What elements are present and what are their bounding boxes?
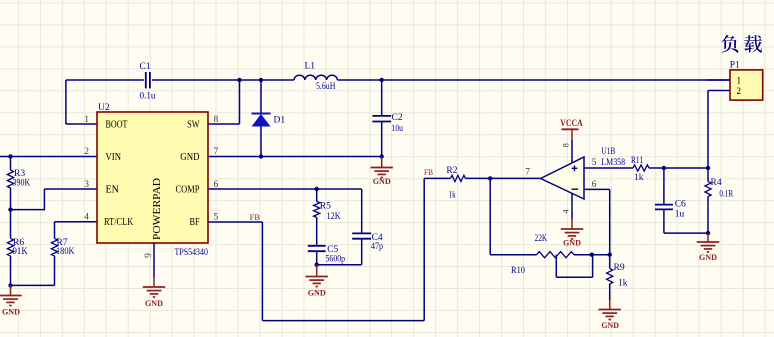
wire C1 to SW node (152, 79, 240, 81)
svg-text:FB: FB (424, 167, 433, 177)
wire R3 top lead (10, 157, 12, 171)
ground under R9 (599, 300, 621, 320)
U2 pin 9 number (144, 253, 154, 258)
junction op-amp output node (488, 176, 492, 180)
svg-text:EN: EN (106, 185, 120, 196)
ground lower left (0, 285, 22, 305)
svg-text:U2: U2 (98, 103, 110, 113)
svg-text:6: 6 (214, 180, 219, 190)
R6 label (13, 238, 24, 248)
svg-text:47p: 47p (371, 242, 383, 252)
GND label under C5 (308, 288, 326, 298)
U2 pin 5 number (214, 213, 219, 223)
wire D1 anode lead (260, 127, 262, 157)
wire FB net from U2 pin 5 (208, 178, 451, 320)
R2 value 1k (449, 190, 456, 200)
wire R9 bottom lead (609, 284, 611, 300)
junction output node at C2 (380, 78, 384, 82)
L1 value 5.6uH (316, 82, 336, 92)
wire VIN net from left edge to U2 pin 2 (0, 156, 97, 158)
U2 pin name RT/CLK (104, 217, 134, 228)
C1 label (140, 62, 151, 72)
wire R11 to C6 node (649, 167, 708, 169)
svg-text:9: 9 (144, 253, 154, 258)
wire bottom GND link (11, 284, 55, 286)
capacitor C5 (308, 246, 326, 251)
U2 pin name POWERPAD (152, 178, 163, 240)
U2 pin 1 number (84, 115, 89, 125)
svg-text:6: 6 (592, 180, 597, 190)
ground under U2 pin 9 (143, 277, 165, 297)
svg-text:8: 8 (560, 143, 570, 147)
svg-text:GND: GND (308, 288, 326, 298)
U2 pin 8 number (214, 115, 219, 125)
R5 label (320, 202, 331, 212)
wire R6 bottom lead (10, 256, 12, 285)
ground under R4 (697, 233, 719, 252)
R7 label (57, 238, 68, 248)
svg-text:1: 1 (737, 75, 742, 85)
wire R5 top lead (316, 189, 318, 201)
svg-text:BOOT: BOOT (106, 120, 128, 131)
resistor R3 (7, 170, 13, 188)
svg-text:FB: FB (250, 212, 261, 222)
svg-text:C2: C2 (392, 113, 403, 123)
ground under C2 (371, 157, 393, 178)
svg-text:SW: SW (187, 120, 200, 131)
U2 pin name BF (190, 217, 200, 228)
svg-text:VIN: VIN (106, 152, 122, 163)
U2 pin 7 number (214, 147, 219, 157)
svg-text:0.1R: 0.1R (719, 190, 733, 200)
ground under op-amp (561, 219, 583, 239)
capacitor C4 (352, 233, 371, 238)
wire R10 to inverting node (574, 254, 610, 256)
inductor L1 (294, 75, 337, 80)
U2 pin name SW (187, 120, 200, 131)
svg-text:3: 3 (84, 180, 89, 190)
svg-text:C6: C6 (675, 200, 686, 210)
svg-text:5: 5 (592, 158, 597, 168)
U2 designator (98, 103, 110, 113)
C6 label (675, 200, 686, 210)
svg-text:GND: GND (563, 238, 581, 248)
R6 value 91K (13, 247, 28, 257)
P1 designator (730, 61, 740, 71)
svg-text:5600p: 5600p (326, 255, 346, 265)
svg-text:R10: R10 (511, 266, 525, 276)
op-amp U1B body (541, 157, 584, 199)
junction C5/C4 bottom (315, 263, 319, 267)
U2 pin 6 number (214, 180, 219, 190)
R5 value 12K (327, 212, 341, 222)
R9 label (614, 263, 625, 273)
svg-text:BF: BF (190, 217, 200, 228)
svg-text:L1: L1 (305, 61, 316, 71)
wire R2 to op-amp output (465, 177, 540, 179)
svg-text:RT/CLK: RT/CLK (104, 217, 134, 228)
load title 负载 (721, 35, 762, 53)
svg-text:GND: GND (699, 252, 717, 262)
wire P1 pin 2 column (708, 91, 730, 169)
svg-text:VCCA: VCCA (560, 118, 583, 128)
wire R10 tap loop (556, 255, 592, 278)
resistor R10 22K (537, 252, 574, 258)
svg-text:4: 4 (84, 213, 89, 223)
IC U2 TPS54340 body (97, 112, 208, 243)
GND label under R4 (699, 252, 717, 262)
svg-text:1k: 1k (634, 173, 644, 183)
svg-text:R9: R9 (614, 263, 625, 273)
U2 pin name COMP (176, 185, 200, 196)
svg-text:C5: C5 (327, 245, 338, 255)
svg-text:1: 1 (84, 115, 89, 125)
GND label under U2 pin 9 (145, 298, 163, 308)
U1B part number LM358 (601, 158, 625, 168)
junction VIN/R3 (8, 154, 12, 158)
C2 value 10u (392, 124, 404, 134)
wire C6 bottom lead (664, 209, 708, 233)
svg-text:GND: GND (180, 152, 199, 163)
svg-text:GND: GND (145, 298, 163, 308)
wire RT/CLK to R7 (55, 222, 98, 239)
net label FB at U2 pin 5 (250, 212, 261, 222)
wire R4 top lead (707, 168, 709, 181)
svg-text:GND: GND (601, 320, 619, 330)
svg-text:5.6uH: 5.6uH (316, 82, 336, 92)
power port VCCA bar (562, 128, 579, 130)
C1 value 0.1u (140, 92, 156, 102)
op-amp pin 8 number (560, 143, 570, 147)
GND label under R9 (601, 320, 619, 330)
wire BOOT to C1 (66, 80, 144, 124)
svg-text:4: 4 (560, 209, 570, 214)
svg-text:7: 7 (214, 147, 219, 157)
op-amp pin 6 number (592, 180, 597, 190)
wire output net to P1 pin 1 (382, 79, 730, 81)
svg-text:5: 5 (214, 213, 219, 223)
net label FB at R2 (424, 167, 433, 177)
wire D1 cathode lead (260, 80, 262, 114)
P1 pin 2 number (737, 86, 742, 96)
svg-text:TPS54340: TPS54340 (175, 248, 209, 258)
svg-text:12K: 12K (327, 212, 341, 222)
capacitor C1 (146, 72, 150, 88)
svg-text:P1: P1 (730, 61, 740, 71)
junction inverting node (608, 253, 612, 257)
VCCA label (560, 118, 583, 128)
wire SW pin riser (208, 80, 240, 124)
svg-text:POWERPAD: POWERPAD (152, 178, 163, 240)
wire C2 top lead (381, 80, 383, 116)
svg-text:LM358: LM358 (601, 158, 625, 168)
svg-text:R11: R11 (631, 156, 643, 166)
svg-text:0.1u: 0.1u (140, 92, 156, 102)
R3 value 390K (13, 178, 31, 188)
U2 pin name EN (106, 185, 120, 196)
R4 value 0.1R (719, 190, 733, 200)
op-amp pin 5 number (592, 158, 597, 168)
P1 pin 1 lead (707, 79, 731, 81)
svg-text:1k: 1k (449, 190, 456, 200)
wire GND rail U2 pin 7 (208, 156, 382, 158)
ground under C5 (306, 265, 328, 287)
svg-text:GND: GND (373, 176, 391, 186)
wire feedback column (490, 178, 536, 254)
junction COMP/R5 (315, 187, 319, 191)
svg-text:91K: 91K (13, 247, 28, 257)
junction SW node (237, 78, 241, 82)
junction D1/GND rail (259, 154, 263, 158)
P1 pin 1 number (737, 75, 742, 85)
svg-text:2: 2 (737, 86, 742, 96)
junction D1 top (259, 78, 263, 82)
resistor R4 (705, 181, 711, 196)
U2 pin name BOOT (106, 120, 128, 131)
svg-text:1u: 1u (675, 210, 685, 220)
wire R4 bottom lead (707, 197, 709, 234)
U2 pin name VIN (106, 152, 122, 163)
svg-text:8: 8 (214, 115, 219, 125)
L1 label (305, 61, 316, 71)
C4 value 47p (371, 242, 383, 252)
C2 label (392, 113, 403, 123)
R11 value 1k (634, 173, 644, 183)
op-amp minus mark (572, 188, 579, 190)
svg-text:22K: 22K (535, 234, 548, 244)
U2 pin 2 number (84, 147, 89, 157)
U1B designator (601, 147, 615, 157)
resistor R7 (51, 238, 57, 256)
wire op-amp pin 6 to node (584, 189, 610, 254)
svg-text:R5: R5 (320, 202, 331, 212)
C5 value 5600p (326, 255, 346, 265)
R9 value 1k (618, 279, 628, 289)
R7 value 180K (56, 247, 75, 257)
svg-text:390K: 390K (13, 178, 31, 188)
svg-text:U1B: U1B (601, 147, 615, 157)
resistor R11 (633, 165, 649, 171)
junction R3/R6/EN node (8, 207, 12, 211)
wire C2 bottom lead (381, 122, 383, 157)
diode D1 (252, 114, 271, 127)
resistor R9 (607, 268, 613, 284)
U2 pin 9 lead (153, 243, 155, 277)
op-amp pin 7 number (525, 168, 530, 178)
svg-text:1k: 1k (618, 279, 628, 289)
wire EN net to U2 pin 3 (11, 189, 98, 210)
capacitor C2 (372, 116, 391, 122)
capacitor C6 (655, 205, 673, 210)
wire C6 top lead (663, 168, 665, 205)
wire C4 bottom lead (317, 239, 362, 265)
U2 pin 3 number (84, 180, 89, 190)
op-amp plus mark (572, 165, 578, 171)
U2 pin 4 number (84, 213, 89, 223)
svg-text:10u: 10u (392, 124, 404, 134)
D1 label (274, 116, 286, 126)
wire SW node to L1 (240, 79, 295, 81)
resistor R6 (7, 238, 13, 256)
svg-text:R2: R2 (446, 166, 457, 176)
C5 label (327, 245, 338, 255)
svg-text:GND: GND (2, 307, 20, 317)
op-amp pin 4 number (560, 209, 570, 214)
junction R4/C6 bottom (706, 231, 710, 235)
svg-text:COMP: COMP (176, 185, 200, 196)
svg-text:D1: D1 (274, 116, 286, 126)
R4 label (711, 178, 722, 188)
wire C5 bottom lead (316, 251, 318, 265)
R11 label (631, 156, 643, 166)
C4 label (372, 233, 383, 243)
wire op-amp pin 5 to R11 (584, 167, 633, 169)
GND label lower left (2, 307, 20, 317)
GND label under op-amp (563, 238, 581, 248)
C6 value 1u (675, 210, 685, 220)
wire R3 to R6 (10, 188, 12, 238)
wire R5 to C5 (316, 217, 318, 245)
U2 part number TPS54340 (175, 248, 209, 258)
junction R6/GND (8, 283, 12, 287)
svg-text:180K: 180K (56, 247, 75, 257)
R3 label (14, 169, 25, 179)
GND label under C2 (373, 176, 391, 186)
svg-text:2: 2 (84, 147, 89, 157)
wire COMP net U2 pin 6 (208, 189, 362, 233)
junction C2/GND rail (380, 154, 384, 158)
svg-text:R4: R4 (711, 178, 722, 188)
junction R11/C6 (662, 166, 666, 170)
wire R9 top lead (609, 255, 611, 269)
R2 label (446, 166, 457, 176)
R10 label (511, 266, 525, 276)
resistor R5 (314, 201, 320, 217)
op-amp pin 4 lead (571, 193, 573, 219)
U2 pin name GND (180, 152, 199, 163)
wire L1 to C2 node (337, 79, 381, 81)
junction R4 top node (706, 166, 710, 170)
resistor R2 (451, 175, 466, 181)
svg-text:C1: C1 (140, 62, 151, 72)
junction R10 right (590, 253, 594, 257)
op-amp pin 8 lead (571, 129, 573, 163)
wire R7 bottom lead (54, 256, 56, 285)
R10 value 22K (535, 234, 548, 244)
svg-text:7: 7 (525, 168, 530, 178)
connector P1 body (730, 70, 763, 100)
